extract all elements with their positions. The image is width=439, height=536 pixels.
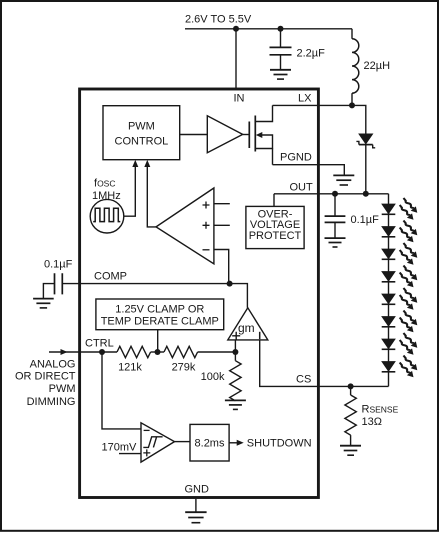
wire gm output to CS [260,340,320,387]
svg-text:PWM: PWM [49,383,76,395]
block 1.25V clamp [96,299,224,330]
node LX junction [349,102,355,108]
svg-text:CTRL: CTRL [85,338,114,350]
node gm input junction [232,349,238,355]
diode D1 schottky [356,134,375,194]
svg-text:0.1µF: 0.1µF [44,259,73,271]
comparator PWM (left-pointing) [156,188,214,264]
svg-text:GND: GND [185,484,210,496]
comparator U2 shutdown [141,423,175,462]
gate driver buffer [207,116,242,153]
ground (Rsense) [340,446,361,456]
svg-text:PGND: PGND [280,152,312,164]
arrowhead comparator output [144,160,150,167]
svg-text:1MHz: 1MHz [92,190,121,202]
node OUT junction C2 [332,191,338,197]
LED D5 [382,263,420,289]
wire R1 to R2 [151,351,164,353]
svg-text:279k: 279k [172,361,196,373]
wire CTRL net [80,351,117,353]
LED D9 [382,353,420,379]
minus input [203,249,210,251]
plus input 1 [203,202,210,209]
wire supply rail [185,28,352,30]
wire comparator minus to COMP [214,250,229,284]
wire CTRL input [49,351,80,353]
svg-text:COMP: COMP [94,271,127,283]
wire comparator output to PWM control [147,166,156,227]
svg-text:2.2µF: 2.2µF [297,48,326,60]
wire comparator stub 1 [214,203,230,205]
node OUT junction D1 [363,191,369,197]
svg-text:PWM: PWM [128,121,155,133]
ground (R3) [225,400,246,409]
block OVER-VOLTAGE PROTECT [246,206,304,248]
wire R2 to gm node [198,351,236,353]
resistor R2 279k [164,346,198,357]
svg-text:CONTROL: CONTROL [115,135,169,147]
ground (PGND) [333,175,354,185]
ground (C1) [270,70,291,79]
svg-text:121k: 121k [118,361,142,373]
arrowhead osc [132,160,138,167]
capacitor C1 2.2uF [270,29,292,69]
node clamp junction [155,349,161,355]
svg-text:OR DIRECT: OR DIRECT [15,371,76,383]
svg-text:PROTECT: PROTECT [249,230,302,242]
svg-text:2.6V TO 5.5V: 2.6V TO 5.5V [185,14,252,26]
capacitor C2 0.1uF [325,194,346,238]
wire OUT net [274,193,389,195]
wire CTRL to shutdown comparator [102,352,141,429]
wire comparator to 8.2ms [175,441,191,443]
wire PGND net [273,165,345,176]
ground (C2) [325,238,346,247]
svg-text:IN: IN [234,93,245,105]
LED D4 [382,241,420,267]
wire 170mV stub [119,453,141,455]
wire comparator stub 2 [214,224,230,226]
capacitor C3 0.1uF COMP [43,273,79,298]
svg-text:LX: LX [298,93,312,105]
inductor L1 22uH [352,29,359,106]
svg-text:100k: 100k [201,371,225,383]
svg-text:8.2ms: 8.2ms [195,438,225,450]
block 8.2ms timer [190,424,229,461]
oscillator OSC [90,199,124,233]
svg-text:CS: CS [296,374,311,386]
IC box U1 [80,89,319,498]
resistor R4 Rsense [345,386,356,445]
arrowhead shutdown [237,440,244,446]
svg-text:TEMP DERATE CLAMP: TEMP DERATE CLAMP [101,316,219,328]
svg-text:ANALOG: ANALOG [30,358,76,370]
plus input 2 [203,222,210,229]
resistor R3 100k [230,352,241,401]
LED D6 [382,286,420,312]
wire LED string [388,194,390,387]
svg-text:fOSC: fOSC [94,178,115,190]
wire driver to gate [243,134,250,136]
wire osc to PWM control [124,166,136,217]
svg-text:DIMMING: DIMMING [27,396,76,408]
node CTRL junction [99,349,105,355]
LED D2 [382,196,420,222]
svg-text:0.1µF: 0.1µF [351,214,380,226]
wire IN [235,29,237,89]
node CS junction [348,383,354,389]
svg-text:170mV: 170mV [102,442,138,454]
wire COMP net [80,284,248,308]
wire LX net [273,105,366,133]
svg-text:1.25V CLAMP OR: 1.25V CLAMP OR [115,304,204,316]
svg-text:RSENSE: RSENSE [362,403,399,415]
svg-text:OUT: OUT [290,182,314,194]
svg-text:13Ω: 13Ω [362,416,382,428]
node COMP junction [227,281,233,287]
wire PWM to driver [180,134,208,136]
block PWM CONTROL [103,106,180,160]
arrowhead CTRL input [61,349,68,355]
svg-text:22µH: 22µH [364,60,391,72]
wire GND stem [195,499,197,512]
wire OVP stem [273,194,275,207]
wire clamp stem [157,330,159,352]
wire CS net [320,385,389,387]
node IN junction [233,26,239,32]
transistor Q1 NMOS [249,105,272,164]
wire shutdown arrow [229,442,238,444]
LED D8 [382,331,420,357]
op-amp gm error amplifier [228,308,268,340]
wire gm plus input [234,340,236,352]
svg-text:gm: gm [238,321,255,335]
resistor R1 121k [117,346,151,357]
LED D7 [382,308,420,334]
ground (GND) [185,512,206,523]
node C1 junction [278,26,284,32]
label ANALOG OR DIRECT PWM DIMMING [15,358,76,407]
svg-text:SHUTDOWN: SHUTDOWN [247,438,312,450]
ground (C3) [33,299,54,308]
LED D3 [382,218,420,244]
